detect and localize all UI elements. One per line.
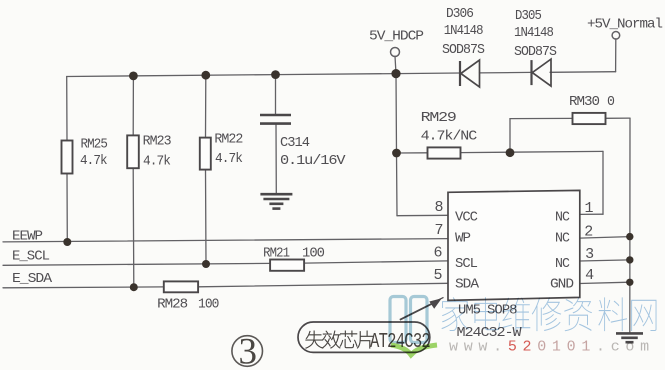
svg-text:5V_HDCP: 5V_HDCP (369, 29, 424, 45)
svg-text:100: 100 (302, 246, 325, 262)
svg-text:D305: D305 (515, 8, 542, 24)
svg-text:5: 5 (433, 267, 442, 284)
svg-text:SDA: SDA (455, 276, 480, 292)
svg-text:SOD87S: SOD87S (442, 42, 485, 58)
svg-text:0: 0 (607, 94, 615, 110)
svg-text:D306: D306 (446, 6, 474, 22)
svg-text:RM21: RM21 (263, 246, 290, 262)
svg-text:NC: NC (555, 209, 570, 225)
svg-text:E_SDA: E_SDA (12, 271, 53, 287)
svg-text:EEWP: EEWP (12, 229, 43, 245)
svg-text:www.520101.com: www.520101.com (449, 339, 655, 356)
svg-text:RM22: RM22 (214, 132, 243, 148)
svg-text:4.7k: 4.7k (215, 151, 243, 167)
svg-text:SCL: SCL (455, 256, 478, 272)
svg-text:RM23: RM23 (143, 134, 172, 150)
svg-text:2: 2 (584, 223, 592, 240)
svg-text:SOD87S: SOD87S (514, 44, 557, 60)
svg-text:100: 100 (198, 297, 219, 313)
svg-text:4.7k: 4.7k (143, 154, 171, 170)
svg-text:8: 8 (434, 199, 443, 216)
svg-text:E_SCL: E_SCL (12, 248, 50, 264)
svg-text:GND: GND (550, 276, 574, 292)
svg-text:RM29: RM29 (421, 110, 457, 126)
svg-text:1N4148: 1N4148 (444, 23, 484, 39)
svg-text:3: 3 (585, 246, 594, 263)
svg-text:RM30: RM30 (569, 94, 600, 110)
svg-text:NC: NC (555, 256, 570, 272)
svg-text:VCC: VCC (455, 209, 478, 225)
svg-text:NC: NC (555, 231, 570, 247)
svg-text:UM5: UM5 (458, 303, 481, 319)
svg-text:4.7k: 4.7k (80, 153, 107, 169)
svg-text:1N4148: 1N4148 (514, 25, 554, 41)
svg-text:4: 4 (585, 267, 594, 284)
svg-text:6: 6 (433, 245, 442, 262)
svg-text:7: 7 (434, 222, 442, 239)
svg-text:RM28: RM28 (157, 297, 188, 313)
svg-text:1: 1 (585, 200, 594, 217)
svg-text:RM25: RM25 (81, 136, 108, 152)
svg-text:C314: C314 (280, 135, 310, 151)
svg-text:WP: WP (455, 230, 471, 246)
svg-text:3: 3 (238, 332, 257, 370)
svg-text:4.7k/NC: 4.7k/NC (421, 129, 477, 145)
svg-text:0.1u/16V: 0.1u/16V (280, 153, 346, 169)
svg-text:+5V_Normal: +5V_Normal (587, 17, 663, 33)
